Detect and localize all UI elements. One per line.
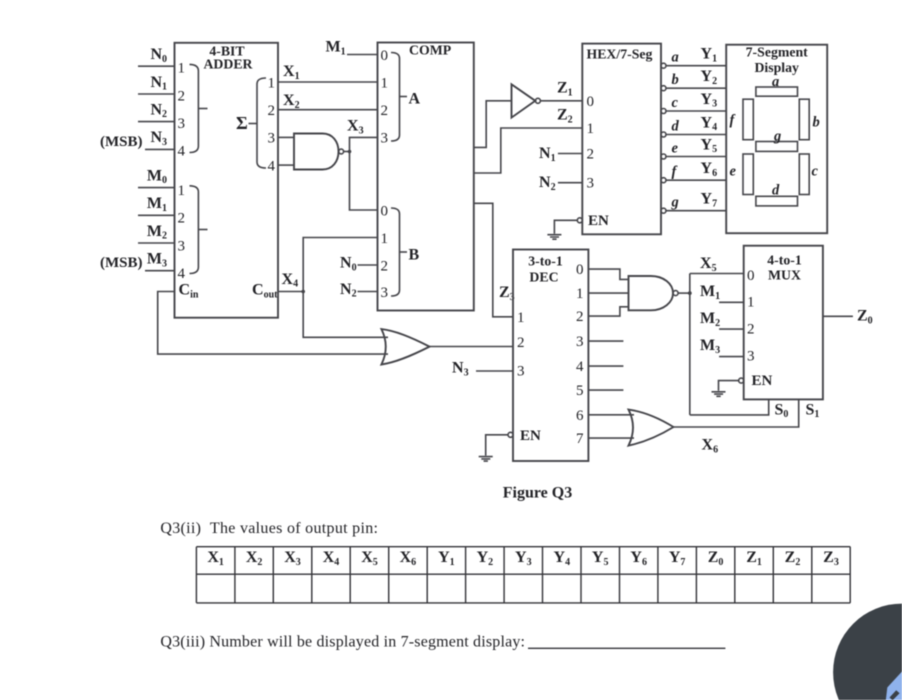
- wire X3 to comp A3: [350, 137, 378, 151]
- svg-text:Display: Display: [754, 60, 799, 75]
- hex output bubble a: [661, 63, 666, 68]
- svg-text:Q3(ii) The values of output p: Q3(ii) The values of output pin:: [160, 520, 378, 537]
- svg-text:7-Segment: 7-Segment: [746, 45, 808, 60]
- wire N2 to comp B3: [358, 291, 378, 293]
- hex output bubble g: [661, 208, 666, 213]
- wire X5 to mux in0: [690, 273, 744, 275]
- svg-text:(MSB): (MSB): [100, 134, 143, 150]
- wire X2 net: [278, 109, 378, 111]
- svg-text:4: 4: [268, 158, 276, 174]
- svg-text:0: 0: [576, 262, 584, 278]
- svg-text:ADDER: ADDER: [203, 57, 253, 72]
- svg-text:(MSB): (MSB): [100, 255, 143, 271]
- svg-text:2: 2: [517, 335, 525, 351]
- svg-text:EN: EN: [520, 428, 541, 444]
- wire X4 to comp B1: [303, 238, 377, 292]
- inverter G2 triangle: [512, 84, 536, 117]
- nand G4 bubble: [673, 291, 678, 296]
- nand gate G4 body: [629, 276, 674, 310]
- brace A group: [391, 53, 400, 142]
- wire N2 to hex pin3: [558, 182, 582, 184]
- wire Z3 net: [474, 203, 513, 316]
- nand G1 bubble: [339, 149, 344, 154]
- wire G1 output: [344, 151, 350, 153]
- svg-text:4: 4: [178, 144, 186, 160]
- hex output bubble c: [661, 109, 666, 114]
- wire Cout to X4 junction: [278, 291, 303, 293]
- wire X6 net to S1: [673, 399, 799, 427]
- svg-text:7: 7: [576, 431, 584, 447]
- svg-text:4-to-1: 4-to-1: [767, 253, 802, 268]
- wire Y5 net: [666, 156, 726, 158]
- 4-bit adder U1 box: [175, 43, 279, 318]
- ground mux EN: [712, 392, 726, 397]
- svg-text:Σ: Σ: [236, 113, 248, 133]
- segment c: [799, 154, 809, 195]
- svg-text:2: 2: [268, 103, 276, 119]
- svg-text:B: B: [409, 247, 420, 264]
- wire dec out3 stub: [588, 340, 623, 342]
- svg-text:0: 0: [381, 203, 389, 219]
- wire G4 output: [678, 292, 690, 294]
- wire M1: [138, 214, 175, 216]
- svg-text:1: 1: [178, 61, 186, 77]
- svg-text:g: g: [671, 195, 679, 211]
- wire dec out5 stub: [588, 389, 623, 391]
- svg-text:2: 2: [381, 258, 389, 274]
- brace sigma outputs: [257, 78, 266, 168]
- wire sum pin4 to nand: [278, 164, 294, 166]
- wire X1 net: [278, 81, 378, 83]
- wire M1 to comp A0: [347, 54, 378, 56]
- wire X5 rail vertical: [689, 274, 691, 415]
- wire Y4 net: [666, 134, 726, 136]
- svg-text:d: d: [672, 118, 680, 134]
- svg-text:EN: EN: [588, 213, 609, 229]
- wire X4 down to or gate: [303, 292, 388, 338]
- overlay avatar pen glyph: [886, 672, 902, 700]
- wire M3 to mux pin3: [719, 356, 744, 358]
- svg-text:1: 1: [587, 121, 595, 137]
- wire dec out4 stub: [588, 365, 623, 367]
- wire dec out0 to nand: [588, 269, 628, 279]
- wire Y7 net: [666, 210, 726, 212]
- svg-text:Q3(iii) Number will be display: Q3(iii) Number will be displayed in 7-se…: [160, 634, 525, 651]
- wire Y1 net: [666, 65, 726, 67]
- svg-text:4: 4: [178, 266, 186, 282]
- svg-text:e: e: [730, 164, 737, 180]
- nand gate G1 body: [294, 134, 339, 170]
- junction X3: [348, 150, 352, 154]
- segment a: [756, 87, 798, 96]
- ground dec EN: [479, 457, 493, 462]
- svg-text:MUX: MUX: [768, 267, 801, 282]
- svg-text:2: 2: [587, 147, 595, 163]
- svg-text:3: 3: [178, 238, 186, 254]
- wire M3: [145, 270, 175, 272]
- wire N3 to dec pin3: [476, 370, 513, 372]
- wire dec EN to ground: [486, 435, 508, 456]
- wire Y3 net: [666, 110, 726, 112]
- segment g: [756, 142, 798, 152]
- svg-text:b: b: [672, 72, 679, 88]
- wire N1: [138, 93, 175, 95]
- wire N0 to comp B2: [358, 264, 378, 266]
- svg-text:1: 1: [747, 295, 755, 311]
- svg-text:3: 3: [381, 131, 389, 147]
- answer blank line: [528, 647, 725, 649]
- svg-text:HEX/7-Seg: HEX/7-Seg: [587, 47, 653, 62]
- svg-text:3: 3: [381, 285, 389, 301]
- wire Z1 net: [540, 100, 582, 102]
- table grid: [196, 547, 850, 603]
- sigma tick: [249, 123, 258, 125]
- wire dec out6 to or: [588, 414, 634, 416]
- wire M2 to mux pin2: [719, 328, 744, 330]
- svg-text:2: 2: [381, 103, 389, 119]
- segment d: [756, 196, 798, 206]
- segment b: [799, 99, 809, 140]
- decoder U5 box: [513, 250, 588, 462]
- svg-text:3: 3: [587, 176, 595, 192]
- wire sum pin3 to nand: [278, 136, 294, 138]
- wire N0: [138, 65, 175, 67]
- hex output bubble f: [661, 178, 666, 183]
- junction X5: [688, 291, 692, 295]
- svg-text:2: 2: [178, 88, 186, 104]
- segment f: [743, 99, 753, 140]
- svg-text:0: 0: [381, 48, 389, 64]
- svg-text:3: 3: [178, 116, 186, 132]
- wire mux EN to ground: [719, 381, 739, 391]
- junction X4: [301, 290, 305, 294]
- svg-text:EN: EN: [752, 373, 773, 389]
- wire G3 output to dec pin2: [429, 346, 513, 348]
- wire M0: [138, 187, 175, 189]
- wire X3 to comp B0: [350, 152, 378, 211]
- svg-text:1: 1: [268, 75, 276, 91]
- svg-text:a: a: [672, 50, 679, 66]
- svg-text:1: 1: [576, 286, 584, 302]
- comparator U2 box: [378, 43, 474, 311]
- svg-text:d: d: [772, 183, 780, 199]
- svg-text:2: 2: [747, 322, 755, 338]
- wire N3: [145, 148, 175, 150]
- wire comp out1 to inverter: [474, 101, 512, 148]
- svg-text:3-to-1: 3-to-1: [528, 254, 563, 269]
- svg-text:1: 1: [178, 183, 186, 199]
- wire N1 to hex pin2: [558, 153, 582, 155]
- brace N group: [190, 64, 199, 152]
- 7-segment display U4 box: [726, 45, 827, 234]
- hex EN bubble: [577, 218, 582, 223]
- svg-text:3: 3: [517, 364, 525, 380]
- wire X5 to S0: [690, 399, 769, 415]
- wire hex EN to ground: [554, 220, 577, 233]
- dec EN bubble: [508, 432, 513, 437]
- svg-text:4: 4: [576, 359, 584, 375]
- wire dec out7 to or: [588, 437, 634, 439]
- svg-text:6: 6: [576, 408, 584, 424]
- wire M1 to mux pin1: [719, 301, 744, 303]
- svg-text:c: c: [672, 95, 679, 111]
- wire M2: [138, 242, 175, 244]
- or gate G3 body: [381, 329, 429, 364]
- inverter G2 bubble: [535, 98, 540, 103]
- wire Y2 net: [666, 87, 726, 89]
- svg-text:1: 1: [517, 310, 525, 326]
- svg-text:COMP: COMP: [409, 43, 452, 58]
- ground hex EN: [547, 235, 561, 240]
- hex output bubble d: [661, 132, 666, 137]
- svg-text:c: c: [812, 164, 819, 180]
- svg-text:Figure Q3: Figure Q3: [503, 485, 572, 502]
- svg-text:g: g: [773, 129, 781, 145]
- hex output bubble e: [661, 154, 666, 159]
- svg-text:0: 0: [587, 94, 595, 110]
- mux EN bubble: [739, 378, 744, 383]
- hex to 7seg decoder U3 box: [582, 44, 661, 235]
- brace M group: [190, 186, 199, 274]
- svg-text:e: e: [672, 140, 679, 156]
- wire dec out2 to nand: [588, 307, 628, 316]
- svg-text:3: 3: [268, 131, 276, 147]
- wire Z2 net: [474, 128, 583, 173]
- svg-text:2: 2: [178, 211, 186, 227]
- multiplexer U6 box: [744, 246, 823, 400]
- segment e: [743, 154, 753, 195]
- hex output bubble b: [661, 86, 666, 91]
- overlay avatar circle: [833, 604, 902, 700]
- svg-text:A: A: [409, 91, 421, 108]
- svg-text:3: 3: [747, 349, 755, 365]
- wire Cin net: [158, 292, 388, 355]
- svg-text:0: 0: [747, 268, 755, 284]
- wire N2: [138, 121, 175, 123]
- svg-text:2: 2: [576, 309, 584, 325]
- svg-text:b: b: [813, 115, 820, 131]
- svg-text:3: 3: [576, 334, 584, 350]
- brace B group: [391, 208, 400, 296]
- svg-text:5: 5: [576, 383, 584, 399]
- wire dec out1 to nand: [588, 292, 628, 294]
- svg-text:1: 1: [381, 75, 389, 91]
- svg-text:1: 1: [381, 231, 389, 247]
- svg-text:a: a: [772, 74, 779, 90]
- or gate G5 body: [629, 410, 674, 446]
- svg-text:DEC: DEC: [529, 269, 558, 284]
- wire Z0 net: [823, 315, 853, 317]
- wire Y6 net: [666, 179, 726, 181]
